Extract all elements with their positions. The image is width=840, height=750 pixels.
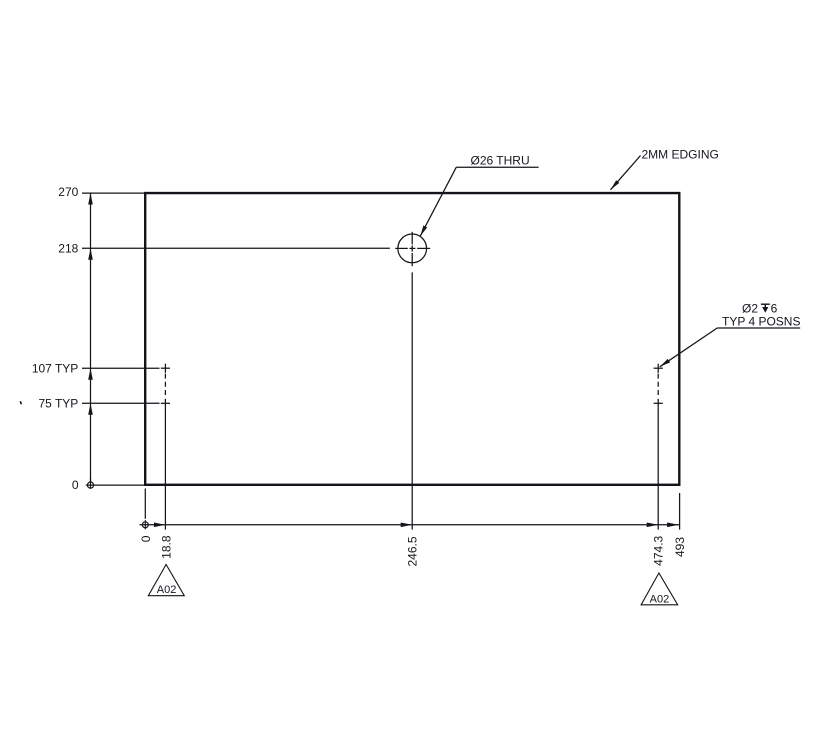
flag triangle A02 right — [641, 573, 678, 605]
svg-text:2MM EDGING: 2MM EDGING — [642, 147, 719, 161]
depth symbol — [761, 304, 770, 313]
underline Ø26 THRU — [456, 166, 538, 168]
svg-text:493: 493 — [673, 537, 687, 557]
hole H1 horizontal centerline — [395, 247, 430, 249]
leader arrow Ø26 THRU — [420, 226, 427, 237]
leader line 2MM EDGING — [611, 156, 641, 190]
bottom horizontal dimension line — [140, 524, 680, 526]
dimension connector 0 — [86, 484, 146, 486]
svg-text:18.8: 18.8 — [159, 535, 173, 559]
extension line 246.5 (hole centerline to dimension line) — [411, 272, 413, 529]
stray mark — [20, 401, 21, 404]
arrow right at 246.5 — [401, 523, 413, 528]
hole position cross 474.3,107 — [654, 364, 663, 373]
svg-text:75 TYP: 75 TYP — [38, 397, 78, 411]
extension line 493 — [679, 493, 681, 530]
leader arrow 2MM EDGING — [611, 180, 620, 190]
arrow right at 18.8 — [154, 523, 166, 528]
dimension connector 218 (extends to hole) — [82, 247, 390, 249]
leader line TYP 4 POSNS — [660, 328, 717, 367]
extension line 474.3 (below lower cross to dimension line) — [657, 408, 659, 530]
underline TYP 4 POSNS — [717, 327, 800, 329]
arrow up at 107 — [88, 368, 93, 380]
svg-text:474.3: 474.3 — [652, 535, 666, 565]
svg-text:Ø2: Ø2 — [742, 302, 758, 316]
extension line 18.8 (below lower cross to dimension line) — [164, 408, 166, 530]
left origin symbol — [87, 479, 93, 489]
arrow up at 218 — [88, 248, 93, 259]
svg-text:0: 0 — [139, 535, 153, 542]
dimension connector 107 TYP — [82, 367, 160, 369]
svg-text:Ø26 THRU: Ø26 THRU — [471, 154, 530, 168]
panel outline — [145, 193, 679, 485]
hole position cross 18.8,75 — [161, 399, 170, 408]
hole position cross 474.3,75 — [654, 399, 663, 408]
svg-text:270: 270 — [58, 185, 78, 199]
svg-text:6: 6 — [771, 302, 778, 316]
dimension connector 75 TYP — [82, 402, 160, 404]
arrow up at 75 — [88, 403, 93, 415]
svg-text:218: 218 — [58, 242, 78, 256]
hole H1 vertical centerline — [411, 232, 413, 266]
arrow up at 270 — [88, 193, 93, 205]
arrow right at 493 — [667, 523, 679, 528]
svg-text:TYP 4 POSNS: TYP 4 POSNS — [722, 315, 800, 329]
svg-text:107 TYP: 107 TYP — [32, 361, 78, 375]
bottom origin symbol — [142, 520, 148, 529]
leader arrow TYP 4 POSNS — [660, 359, 670, 367]
svg-text:0: 0 — [72, 478, 79, 492]
arrow right at 474.3 — [647, 523, 659, 528]
svg-text:246.5: 246.5 — [406, 536, 420, 566]
dimension connector 270 — [82, 192, 146, 194]
dashed centerline between left crosses — [164, 374, 166, 398]
svg-text:A02: A02 — [650, 593, 670, 605]
svg-text:A02: A02 — [157, 584, 177, 596]
flag triangle A02 left — [148, 565, 184, 596]
hole position cross 18.8,107 — [161, 364, 170, 373]
dashed centerline between right crosses — [657, 374, 659, 398]
leader line Ø26 THRU — [420, 167, 456, 236]
hole H1 circle Ø26 — [398, 234, 427, 263]
extension line 0 (below panel corner) — [144, 489, 146, 519]
left vertical dimension line — [90, 193, 92, 482]
